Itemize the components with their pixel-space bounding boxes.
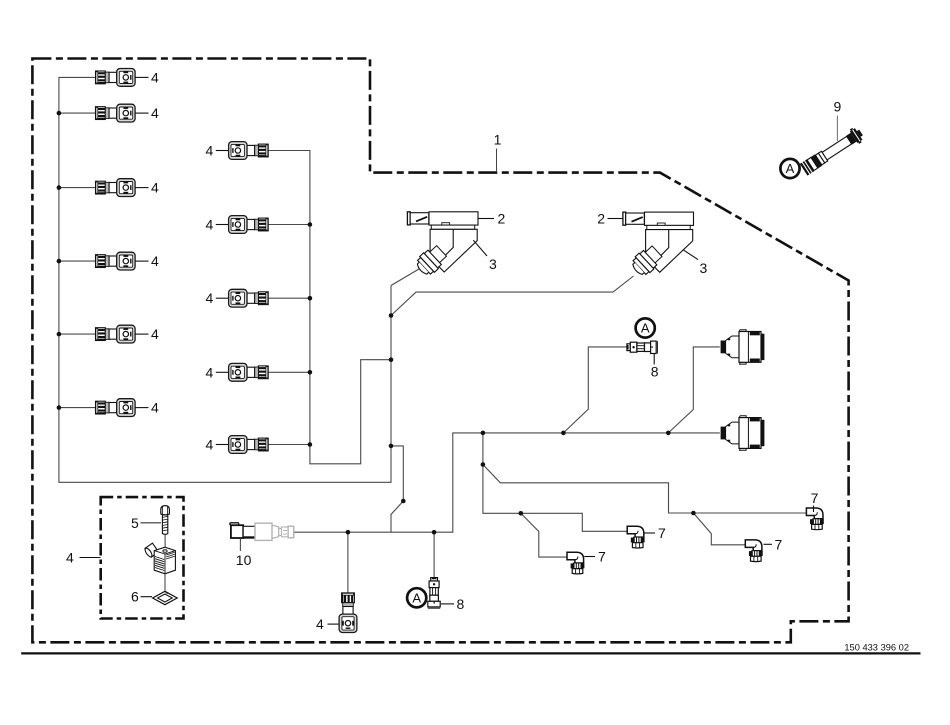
svg-text:6: 6 — [131, 589, 139, 605]
connector 4 row M4 — [206, 363, 269, 381]
wire: main lower harness from item10 — [294, 433, 483, 532]
connector 4 row L2 — [96, 104, 160, 122]
wire: right valve tail to trunk — [391, 276, 634, 316]
connector 4 row L6 — [96, 399, 160, 417]
wire: right horizontal to lower big connector — [483, 432, 720, 434]
sensor item8 top + label — [627, 341, 659, 379]
svg-text:3: 3 — [700, 260, 708, 276]
svg-text:7: 7 — [658, 525, 666, 541]
svg-text:4: 4 — [316, 616, 324, 632]
wire: drop to bottom item8 — [433, 532, 435, 577]
svg-text:5: 5 — [131, 515, 139, 531]
wire: branch to upper big connector — [668, 347, 720, 433]
elbow connector 7 #1 + label — [627, 525, 666, 548]
wire: branch y482 to elbow 7 #3 — [483, 465, 807, 514]
connector 4 row L5 — [96, 325, 160, 343]
svg-text:9: 9 — [834, 99, 842, 115]
big connector upper — [721, 330, 765, 365]
svg-text:4: 4 — [206, 364, 214, 380]
wire: drop to bottom item4 — [347, 532, 349, 593]
elbow connector 7 #4 + label — [745, 536, 782, 561]
svg-text:2: 2 — [498, 211, 506, 227]
svg-text:4: 4 — [151, 105, 159, 121]
wire: trunk jog down to harness line — [391, 446, 403, 532]
svg-text:4: 4 — [151, 69, 159, 85]
wire: branch to top item8 — [563, 347, 627, 433]
svg-text:10: 10 — [236, 552, 252, 568]
connector item10 + label — [230, 523, 294, 568]
badge A near bottom item8 — [407, 588, 426, 607]
wire: middle bus stubs — [268, 225, 310, 445]
connector 4 row L3 — [96, 179, 160, 197]
connector 4 row M3 — [206, 289, 269, 307]
svg-text:4: 4 — [206, 143, 214, 159]
svg-text:1: 1 — [494, 132, 502, 148]
svg-text:8: 8 — [457, 596, 465, 612]
elbow connector 7 #3 + label — [806, 490, 823, 530]
svg-text:7: 7 — [775, 536, 783, 552]
bottom rule — [21, 652, 920, 654]
valve connector body (kit) — [144, 543, 176, 591]
svg-text:4: 4 — [206, 217, 214, 233]
connector 4 bottom vertical — [316, 593, 357, 633]
label 1 — [494, 132, 502, 173]
junction dots left bus — [57, 111, 62, 410]
dashed kit box item4 — [101, 497, 184, 618]
gasket item6 + label — [131, 589, 177, 605]
svg-text:4: 4 — [151, 180, 159, 196]
wire: branch to elbow 7 #2 — [521, 513, 567, 557]
elbow connector 7 #2 + label — [567, 549, 606, 574]
svg-text:4: 4 — [206, 437, 214, 453]
connector 4 row L4 — [96, 252, 160, 270]
wire: left valve tail into trunk — [391, 268, 422, 286]
connector 4 row M2 — [206, 216, 269, 234]
sensor item8 bottom + label — [428, 578, 465, 612]
label 4 kit box — [66, 550, 101, 566]
wire: left bus stubs — [59, 113, 96, 408]
screw item5 + label — [131, 506, 169, 551]
wire: branch to elbow 7 #4 — [693, 513, 745, 545]
big connector lower — [721, 416, 765, 451]
wire: mid vertical + run to elbow 7 #1 — [483, 433, 627, 531]
junction dots trunk/harness — [346, 313, 696, 534]
valve assembly 2+3 right — [597, 211, 707, 279]
cable assembly item9 + label — [799, 99, 866, 177]
svg-text:8: 8 — [651, 364, 659, 380]
svg-text:7: 7 — [598, 549, 606, 565]
connector 4 row L1 — [96, 69, 160, 87]
badge A near top item8 — [636, 318, 655, 337]
svg-text:7: 7 — [811, 490, 819, 506]
svg-text:4: 4 — [151, 400, 159, 416]
junction dots middle bus — [308, 222, 313, 447]
wire: left bus + trunk — [59, 77, 391, 482]
svg-text:4: 4 — [151, 326, 159, 342]
wire: middle bus — [268, 151, 391, 464]
badge A near item9 — [780, 159, 799, 178]
sheet border (dash-dot outline) — [32, 59, 848, 643]
svg-text:4: 4 — [66, 550, 74, 566]
svg-text:2: 2 — [597, 211, 605, 227]
svg-text:3: 3 — [489, 256, 497, 272]
svg-text:150 433 396 02: 150 433 396 02 — [844, 643, 909, 653]
connector 4 row M1 — [206, 142, 269, 160]
svg-text:4: 4 — [151, 253, 159, 269]
valve assembly 2+3 left — [407, 211, 505, 279]
connector 4 row M5 — [206, 436, 269, 454]
svg-text:4: 4 — [206, 290, 214, 306]
